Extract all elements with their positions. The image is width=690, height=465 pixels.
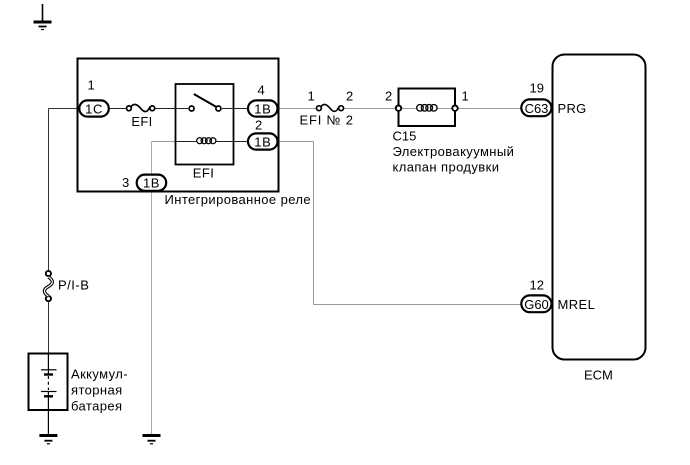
- svg-text:EFI: EFI: [131, 114, 152, 129]
- svg-text:1: 1: [462, 89, 469, 104]
- svg-text:1C: 1C: [85, 101, 103, 116]
- wire: C15 internal: [402, 108, 417, 110]
- svg-text:ECM: ECM: [584, 368, 613, 383]
- wire: inner box right to pin2: [234, 141, 248, 143]
- svg-text:1: 1: [308, 89, 315, 104]
- wire: 1C to fuse EFI: [110, 108, 126, 110]
- svg-text:1B: 1B: [254, 134, 271, 149]
- wire: relay pin3 to ground: [151, 142, 153, 435]
- wire: coil row inside inner box: [176, 141, 198, 143]
- fuse EFI No 2: [317, 104, 344, 111]
- wire: relay pin2 to corner (MREL): [278, 141, 314, 143]
- svg-text:клапан продувки: клапан продувки: [393, 160, 500, 175]
- svg-text:1B: 1B: [143, 176, 160, 191]
- svg-text:EFI: EFI: [193, 166, 214, 181]
- svg-text:MREL: MREL: [558, 297, 596, 312]
- svg-text:C15: C15: [393, 129, 417, 144]
- ground (relay pin3): [143, 436, 161, 444]
- svg-text:19: 19: [530, 81, 544, 96]
- battery box: [29, 354, 68, 411]
- svg-text:G60: G60: [524, 297, 549, 312]
- C15 coil: [417, 105, 437, 112]
- ground (battery): [39, 436, 57, 444]
- fuse P/I-B: [45, 271, 53, 301]
- battery cells: [41, 354, 57, 435]
- svg-text:4: 4: [258, 83, 265, 98]
- wire: battery feed to 1C (horizontal): [49, 108, 80, 110]
- wire: inner box right to pin4: [234, 108, 248, 110]
- wire: inner box left to switch contact: [176, 108, 189, 110]
- svg-text:12: 12: [530, 278, 544, 293]
- C15 terminal 2: [396, 106, 401, 111]
- wire: MREL horizontal to ECM G60: [314, 304, 521, 306]
- svg-text:2: 2: [346, 89, 353, 104]
- connector oval G60: [521, 295, 551, 312]
- svg-text:3: 3: [122, 175, 129, 190]
- relay inner box: [176, 84, 234, 165]
- svg-text:Аккумул-: Аккумул-: [71, 366, 128, 381]
- wire: MREL vertical segment: [313, 142, 315, 305]
- fuse EFI (relay): [126, 104, 154, 111]
- svg-text:1: 1: [88, 78, 95, 93]
- svg-text:Интегрированное реле: Интегрированное реле: [165, 192, 312, 207]
- connector oval 1C: [79, 100, 109, 116]
- svg-text:1B: 1B: [254, 101, 271, 116]
- svg-text:P/I-B: P/I-B: [58, 278, 89, 293]
- svg-text:C63: C63: [525, 101, 549, 116]
- connector oval 1B pin4: [248, 100, 278, 116]
- wire: fuse EFI No2 to C15 terminal 2: [344, 108, 395, 110]
- connector oval C63: [521, 99, 551, 116]
- relay switch: [189, 94, 221, 111]
- wire: switch contact to inner box right: [222, 108, 234, 110]
- wire: relay pin4 to fuse EFI No2: [278, 108, 316, 110]
- wire: fuse EFI to inner box: [156, 108, 176, 110]
- connector oval 1B pin2: [248, 133, 278, 149]
- C15 terminal 1: [452, 106, 457, 111]
- wire: fuse P/I-B to battery box: [48, 302, 50, 354]
- ECM box: [553, 55, 646, 360]
- svg-text:яторная: яторная: [71, 383, 123, 398]
- svg-text:2: 2: [385, 89, 392, 104]
- connector oval 1B pin3: [137, 175, 167, 191]
- relay coil: [197, 138, 216, 144]
- svg-text:батарея: батарея: [71, 399, 122, 414]
- wire: relay coil feed (left of inner box): [152, 141, 176, 143]
- relay box (Интегрированное реле): [78, 59, 279, 192]
- ground (ghost, top-left): [34, 4, 52, 30]
- wire: C15 terminal 1 to ECM C63: [459, 108, 521, 110]
- svg-text:Электровакуумный: Электровакуумный: [393, 144, 515, 159]
- wire: battery feed vertical down to fuse P/I-B: [48, 109, 50, 271]
- svg-text:2: 2: [255, 118, 262, 133]
- svg-text:PRG: PRG: [558, 101, 587, 116]
- svg-text:EFI № 2: EFI № 2: [300, 113, 354, 128]
- valve C15 box: [399, 89, 456, 127]
